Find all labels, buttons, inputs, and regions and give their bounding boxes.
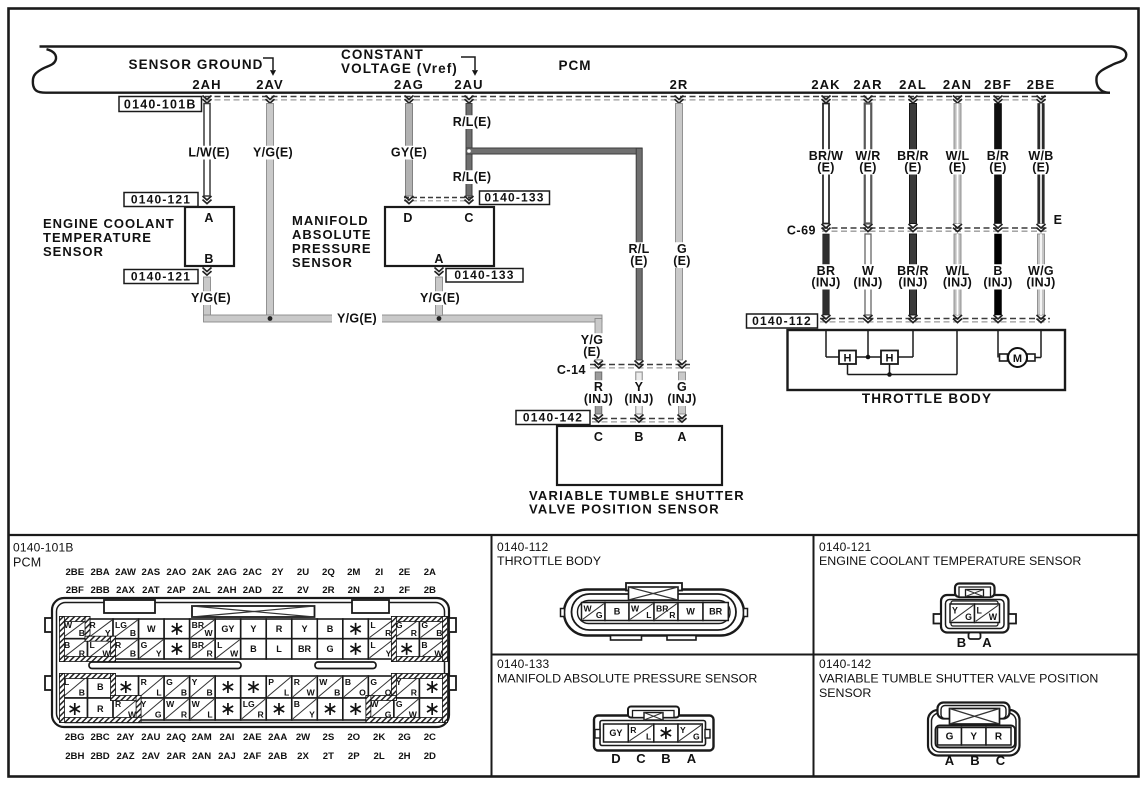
svg-text:R/L(E): R/L(E)	[453, 170, 492, 184]
svg-text:2M: 2M	[347, 567, 360, 578]
svg-text:2AG: 2AG	[394, 77, 424, 92]
svg-text:2AU: 2AU	[454, 77, 483, 92]
svg-text:(INJ): (INJ)	[898, 276, 927, 290]
svg-text:G: G	[946, 732, 954, 743]
svg-text:2BF: 2BF	[66, 585, 84, 596]
svg-text:A: A	[204, 211, 213, 225]
svg-text:2AK: 2AK	[811, 77, 840, 92]
svg-text:2J: 2J	[374, 585, 385, 596]
svg-text:B: B	[334, 688, 340, 698]
svg-text:R: R	[630, 725, 637, 735]
svg-text:2W: 2W	[296, 732, 311, 743]
svg-text:Y/G(E): Y/G(E)	[253, 146, 293, 160]
svg-text:ENGINE COOLANT TEMPERATURE SEN: ENGINE COOLANT TEMPERATURE SENSOR	[819, 554, 1081, 568]
svg-text:2O: 2O	[347, 732, 360, 743]
svg-text:2AL: 2AL	[899, 77, 927, 92]
svg-text:2Z: 2Z	[272, 585, 283, 596]
svg-text:2AD: 2AD	[243, 585, 262, 596]
svg-text:C-14: C-14	[557, 363, 586, 377]
svg-text:2U: 2U	[297, 567, 309, 578]
svg-text:R: R	[206, 649, 213, 659]
svg-text:BR: BR	[656, 604, 669, 614]
svg-text:2AN: 2AN	[943, 77, 972, 92]
svg-text:(E): (E)	[630, 254, 648, 268]
svg-text:H: H	[886, 353, 894, 365]
svg-text:2Y: 2Y	[272, 567, 284, 578]
svg-text:B: B	[327, 624, 334, 634]
svg-text:2AR: 2AR	[853, 77, 882, 92]
svg-text:PCM: PCM	[559, 58, 592, 73]
svg-text:SENSOR: SENSOR	[43, 244, 104, 259]
svg-text:2AZ: 2AZ	[116, 751, 134, 762]
svg-text:SENSOR GROUND: SENSOR GROUND	[128, 57, 263, 72]
svg-text:Y: Y	[309, 710, 315, 720]
svg-text:Y/G(E): Y/G(E)	[337, 312, 377, 326]
svg-text:0140-133: 0140-133	[497, 657, 549, 671]
svg-text:2B: 2B	[424, 585, 436, 596]
svg-text:L: L	[977, 605, 983, 615]
svg-text:R: R	[258, 710, 265, 720]
svg-text:0140-121: 0140-121	[131, 192, 191, 206]
svg-text:R: R	[669, 610, 676, 620]
svg-text:O: O	[359, 688, 366, 698]
svg-text:2AN: 2AN	[192, 751, 211, 762]
svg-text:G: G	[693, 732, 700, 742]
svg-text:2AJ: 2AJ	[218, 751, 236, 762]
svg-text:2S: 2S	[323, 732, 335, 743]
svg-text:B: B	[345, 677, 351, 687]
svg-text:0140-133: 0140-133	[484, 190, 544, 204]
svg-text:MANIFOLD ABSOLUTE PRESSURE SEN: MANIFOLD ABSOLUTE PRESSURE SENSOR	[497, 672, 757, 686]
svg-text:L: L	[646, 732, 651, 742]
svg-text:VARIABLE TUMBLE SHUTTER VALVE: VARIABLE TUMBLE SHUTTER VALVE POSITION	[819, 672, 1098, 686]
svg-text:(INJ): (INJ)	[853, 276, 882, 290]
svg-text:G: G	[370, 677, 377, 687]
svg-text:L: L	[217, 640, 222, 650]
svg-text:(E): (E)	[904, 161, 922, 175]
svg-text:A: A	[687, 751, 697, 766]
svg-text:2AW: 2AW	[115, 567, 137, 578]
svg-text:Y/G(E): Y/G(E)	[191, 291, 231, 305]
svg-text:R: R	[411, 688, 418, 698]
svg-text:0140-112: 0140-112	[752, 314, 812, 328]
svg-text:VOLTAGE (Vref): VOLTAGE (Vref)	[341, 61, 458, 76]
svg-text:C: C	[594, 430, 603, 444]
svg-text:2BB: 2BB	[91, 585, 110, 596]
svg-text:(E): (E)	[989, 161, 1007, 175]
svg-text:A: A	[982, 635, 992, 650]
svg-text:2AX: 2AX	[116, 585, 135, 596]
svg-text:(E): (E)	[583, 345, 601, 359]
svg-text:GY(E): GY(E)	[391, 146, 427, 160]
svg-text:2AO: 2AO	[166, 567, 186, 578]
svg-text:B: B	[436, 628, 442, 638]
svg-text:D: D	[611, 751, 620, 766]
svg-text:2R: 2R	[322, 585, 334, 596]
svg-text:2BA: 2BA	[91, 567, 110, 578]
svg-text:B: B	[64, 640, 70, 650]
svg-text:W: W	[686, 607, 695, 617]
svg-text:2BC: 2BC	[91, 732, 110, 743]
svg-text:G: G	[155, 710, 162, 720]
svg-text:W: W	[192, 699, 201, 709]
svg-text:LG: LG	[243, 699, 255, 709]
svg-text:Y: Y	[680, 725, 686, 735]
svg-text:W: W	[989, 612, 998, 622]
svg-text:2F: 2F	[399, 585, 410, 596]
svg-text:LG: LG	[115, 620, 127, 630]
svg-text:B: B	[130, 649, 136, 659]
svg-text:R: R	[276, 624, 283, 634]
svg-text:G: G	[965, 612, 972, 622]
svg-text:L: L	[284, 688, 289, 698]
svg-text:2AU: 2AU	[141, 732, 160, 743]
svg-text:B: B	[957, 635, 966, 650]
svg-text:BR: BR	[192, 620, 205, 630]
svg-text:0140-101B: 0140-101B	[124, 97, 197, 111]
svg-text:B: B	[294, 699, 300, 709]
svg-text:2AT: 2AT	[142, 585, 160, 596]
svg-text:L/W(E): L/W(E)	[188, 146, 229, 160]
svg-text:0140-101B: 0140-101B	[13, 541, 74, 555]
svg-text:MANIFOLD: MANIFOLD	[292, 213, 369, 228]
svg-text:R/L(E): R/L(E)	[453, 115, 492, 129]
svg-text:B: B	[97, 682, 104, 692]
svg-text:B: B	[970, 753, 979, 768]
svg-text:P: P	[268, 677, 274, 687]
svg-text:2P: 2P	[348, 751, 360, 762]
svg-text:(INJ): (INJ)	[584, 392, 613, 406]
svg-text:2BH: 2BH	[65, 751, 84, 762]
svg-text:2AP: 2AP	[167, 585, 186, 596]
svg-text:L: L	[276, 644, 282, 654]
svg-text:R: R	[115, 640, 122, 650]
svg-text:W: W	[631, 604, 640, 614]
svg-text:2AK: 2AK	[192, 567, 211, 578]
svg-text:ABSOLUTE: ABSOLUTE	[292, 227, 372, 242]
svg-text:2H: 2H	[398, 751, 410, 762]
svg-text:R: R	[294, 677, 301, 687]
svg-text:2BD: 2BD	[91, 751, 110, 762]
svg-text:2V: 2V	[297, 585, 309, 596]
svg-text:W: W	[230, 649, 239, 659]
svg-text:B: B	[250, 644, 257, 654]
svg-text:(INJ): (INJ)	[667, 392, 696, 406]
svg-text:(INJ): (INJ)	[624, 392, 653, 406]
svg-text:BR: BR	[298, 644, 312, 654]
svg-text:2AG: 2AG	[217, 567, 237, 578]
svg-text:B: B	[130, 628, 136, 638]
svg-text:G: G	[327, 644, 334, 654]
svg-text:B: B	[661, 751, 670, 766]
svg-text:Y: Y	[250, 624, 256, 634]
svg-text:PRESSURE: PRESSURE	[292, 241, 372, 256]
svg-text:CONSTANT: CONSTANT	[341, 47, 424, 62]
svg-text:BR: BR	[709, 607, 723, 617]
svg-text:2AY: 2AY	[117, 732, 135, 743]
svg-text:C: C	[636, 751, 646, 766]
svg-text:0140-121: 0140-121	[131, 269, 191, 283]
svg-text:PCM: PCM	[13, 556, 41, 570]
svg-text:2AF: 2AF	[243, 751, 261, 762]
svg-text:THROTTLE BODY: THROTTLE BODY	[862, 391, 992, 406]
svg-text:SENSOR: SENSOR	[819, 686, 871, 700]
svg-text:B: B	[79, 628, 85, 638]
svg-text:2R: 2R	[670, 77, 689, 92]
svg-text:R: R	[995, 732, 1003, 743]
svg-text:L: L	[156, 688, 161, 698]
svg-text:2E: 2E	[399, 567, 411, 578]
svg-text:G: G	[166, 677, 173, 687]
svg-text:A: A	[434, 252, 443, 266]
svg-text:GY: GY	[221, 624, 234, 634]
svg-text:R: R	[90, 620, 97, 630]
svg-text:SENSOR: SENSOR	[292, 255, 353, 270]
svg-text:C-69: C-69	[787, 224, 816, 238]
svg-text:2AL: 2AL	[193, 585, 211, 596]
svg-text:2BG: 2BG	[65, 732, 85, 743]
svg-text:W: W	[166, 699, 175, 709]
svg-text:C: C	[464, 211, 473, 225]
svg-text:A: A	[945, 753, 955, 768]
svg-text:B: B	[421, 640, 427, 650]
svg-text:R: R	[181, 710, 188, 720]
svg-text:R: R	[97, 704, 104, 714]
svg-text:Y: Y	[970, 732, 977, 743]
svg-text:2BF: 2BF	[984, 77, 1012, 92]
svg-text:2AB: 2AB	[268, 751, 287, 762]
svg-text:(E): (E)	[817, 161, 835, 175]
svg-text:(E): (E)	[949, 161, 967, 175]
svg-text:Y: Y	[386, 649, 392, 659]
svg-text:W: W	[584, 604, 593, 614]
svg-text:G: G	[396, 699, 403, 709]
svg-text:ENGINE COOLANT: ENGINE COOLANT	[43, 216, 175, 231]
svg-text:Y/G(E): Y/G(E)	[420, 291, 460, 305]
svg-text:Y: Y	[301, 624, 307, 634]
svg-text:2AI: 2AI	[219, 732, 234, 743]
svg-text:B: B	[181, 688, 187, 698]
svg-text:2AV: 2AV	[256, 77, 284, 92]
svg-text:(E): (E)	[859, 161, 877, 175]
svg-text:A: A	[677, 430, 686, 444]
svg-text:0140-112: 0140-112	[497, 540, 549, 554]
svg-text:TEMPERATURE: TEMPERATURE	[43, 230, 152, 245]
svg-text:2L: 2L	[374, 751, 385, 762]
svg-text:D: D	[403, 211, 412, 225]
svg-text:E: E	[1054, 213, 1063, 227]
svg-text:THROTTLE BODY: THROTTLE BODY	[497, 554, 601, 568]
svg-text:2BE: 2BE	[65, 567, 84, 578]
svg-text:B: B	[614, 607, 621, 617]
svg-text:0140-142: 0140-142	[523, 410, 583, 424]
svg-text:(INJ): (INJ)	[811, 276, 840, 290]
svg-text:2C: 2C	[424, 732, 436, 743]
svg-text:2G: 2G	[398, 732, 411, 743]
svg-text:2AE: 2AE	[243, 732, 262, 743]
svg-text:C: C	[996, 753, 1006, 768]
svg-text:L: L	[207, 710, 212, 720]
svg-text:2I: 2I	[375, 567, 383, 578]
svg-text:G: G	[596, 610, 603, 620]
svg-text:2AR: 2AR	[167, 751, 186, 762]
svg-text:(INJ): (INJ)	[943, 276, 972, 290]
svg-text:Y: Y	[156, 649, 162, 659]
svg-text:2AQ: 2AQ	[166, 732, 186, 743]
svg-text:2X: 2X	[297, 751, 309, 762]
svg-text:L: L	[370, 640, 375, 650]
svg-text:W: W	[319, 677, 328, 687]
svg-text:2AC: 2AC	[243, 567, 262, 578]
svg-text:2AH: 2AH	[192, 77, 221, 92]
svg-text:Y: Y	[192, 677, 198, 687]
svg-text:0140-142: 0140-142	[819, 657, 871, 671]
svg-text:2AV: 2AV	[142, 751, 161, 762]
svg-text:2AH: 2AH	[217, 585, 236, 596]
svg-text:L: L	[646, 610, 651, 620]
svg-text:(INJ): (INJ)	[1026, 276, 1055, 290]
svg-text:GY: GY	[609, 728, 622, 738]
svg-text:B: B	[204, 252, 213, 266]
svg-text:2BE: 2BE	[1027, 77, 1056, 92]
svg-text:2T: 2T	[323, 751, 334, 762]
svg-text:2AS: 2AS	[142, 567, 161, 578]
svg-text:2A: 2A	[424, 567, 436, 578]
svg-text:G: G	[141, 640, 148, 650]
svg-text:2N: 2N	[348, 585, 360, 596]
svg-text:L: L	[370, 620, 375, 630]
svg-text:Y: Y	[952, 605, 958, 615]
svg-text:W: W	[205, 628, 214, 638]
svg-text:H: H	[844, 353, 852, 365]
svg-text:0140-121: 0140-121	[819, 540, 871, 554]
svg-text:B: B	[634, 430, 643, 444]
svg-text:2Q: 2Q	[322, 567, 335, 578]
svg-text:M: M	[1013, 353, 1022, 365]
svg-text:(INJ): (INJ)	[983, 276, 1012, 290]
svg-text:(E): (E)	[673, 254, 691, 268]
svg-text:2AM: 2AM	[191, 732, 211, 743]
svg-text:W: W	[147, 624, 156, 634]
svg-text:R: R	[141, 677, 148, 687]
svg-text:R: R	[411, 628, 418, 638]
svg-text:2AA: 2AA	[268, 732, 287, 743]
svg-text:0140-133: 0140-133	[454, 268, 514, 282]
svg-text:2K: 2K	[373, 732, 385, 743]
svg-text:2D: 2D	[424, 751, 436, 762]
svg-text:(E): (E)	[1032, 161, 1050, 175]
svg-text:W: W	[307, 688, 316, 698]
svg-text:B: B	[206, 688, 212, 698]
svg-text:VALVE POSITION SENSOR: VALVE POSITION SENSOR	[529, 502, 720, 517]
svg-text:B: B	[79, 688, 85, 698]
svg-text:BR: BR	[192, 640, 205, 650]
